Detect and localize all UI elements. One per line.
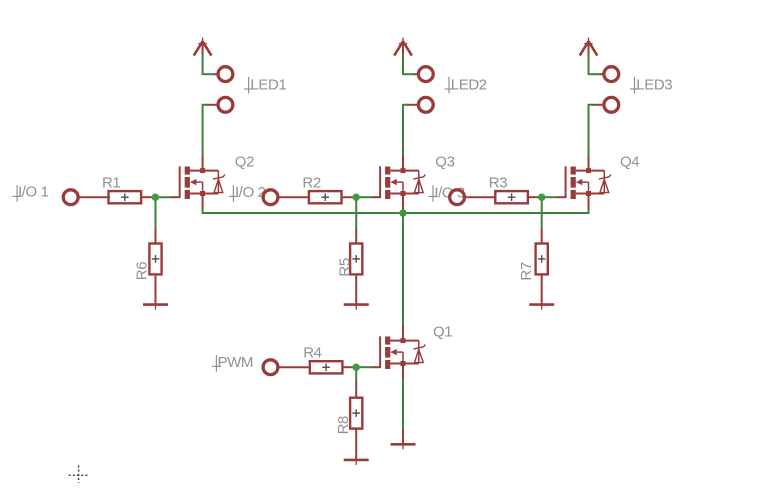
label I/O 3 origin cross xyxy=(429,185,438,202)
label PWM origin cross xyxy=(212,355,221,372)
sheet origin cross xyxy=(69,465,89,483)
label R2 xyxy=(302,174,320,191)
wire source bus xyxy=(203,209,589,213)
wire R2 to node2 xyxy=(341,196,357,198)
ground GND4 xyxy=(344,460,369,465)
label R8 xyxy=(335,416,352,434)
wire VCC P3 xyxy=(588,55,590,75)
svg-text:LED3: LED3 xyxy=(636,76,672,93)
resistor R3 xyxy=(495,191,528,203)
resistor R2 xyxy=(309,191,342,203)
connector IO1 pad xyxy=(63,190,78,205)
resistor R4 xyxy=(310,361,343,373)
wire Q2 source pin xyxy=(202,196,204,209)
label R4 xyxy=(303,345,321,362)
wire bus to Q1 drain xyxy=(402,213,404,325)
label I/O 1 xyxy=(18,184,49,201)
pin 1 stub LED1 xyxy=(214,73,218,75)
wire R7 to ground xyxy=(541,274,543,305)
power VCC arrow P1 xyxy=(194,38,212,56)
label Q2 xyxy=(235,153,254,170)
connector PWM pad xyxy=(263,360,278,375)
connector LED3 pin 1 pad xyxy=(604,67,619,82)
wire LED2 pin1 xyxy=(403,73,415,75)
wire Q3 source pin xyxy=(402,196,404,209)
wire node4 to R8 xyxy=(355,367,357,382)
wire ground pin Q1 xyxy=(402,429,404,444)
wire LED2 pin2 to drain xyxy=(403,105,408,156)
label PWM xyxy=(218,354,253,371)
label R6 xyxy=(134,262,151,280)
resistor R8 xyxy=(350,398,362,429)
label LED3 xyxy=(636,76,672,93)
svg-text:LED2: LED2 xyxy=(451,76,487,93)
connector IO3 pad xyxy=(450,190,465,205)
svg-text:R3: R3 xyxy=(489,174,507,191)
wire Q4 source pin xyxy=(588,196,590,209)
svg-text:PWM: PWM xyxy=(218,354,253,371)
wire R6 pin xyxy=(155,228,157,245)
wire R4 to node4 xyxy=(342,366,357,368)
power VCC arrow P2 xyxy=(394,38,412,56)
label Q3 xyxy=(435,153,454,170)
junction node3 xyxy=(538,194,545,201)
wire R8 to ground xyxy=(355,428,357,460)
ground GND5 xyxy=(391,444,416,449)
wire Q3 source to bus xyxy=(402,209,404,214)
label R3 xyxy=(489,174,507,191)
label R5 xyxy=(336,258,353,276)
svg-text:R2: R2 xyxy=(302,174,320,191)
transistor Q4 N-MOSFET xyxy=(557,166,611,199)
label I/O 2 origin cross xyxy=(229,185,238,202)
connector IO2 pad xyxy=(263,190,278,205)
svg-text:Q1: Q1 xyxy=(433,323,452,340)
junction node1 xyxy=(152,194,159,201)
label LED1 xyxy=(250,76,286,93)
wire LED3 pin1 xyxy=(589,73,601,75)
resistor R7 xyxy=(536,244,548,275)
svg-text:R5: R5 xyxy=(336,258,353,276)
transistor Q2 N-MOSFET xyxy=(171,166,225,199)
ground GND2 xyxy=(344,305,369,310)
power VCC arrow P3 xyxy=(580,38,598,56)
label I/O 2 xyxy=(235,184,266,201)
wire R5 pin xyxy=(355,228,357,245)
transistor Q3 N-MOSFET xyxy=(371,166,425,199)
wire node1 to Q2 gate xyxy=(155,196,171,198)
wire R7 pin xyxy=(541,228,543,245)
svg-text:Q4: Q4 xyxy=(620,154,639,171)
wire VCC P1 xyxy=(202,55,204,75)
label Q4 xyxy=(620,154,639,171)
wire node4 to Q1 gate xyxy=(356,366,372,368)
wire Q1 source to ground xyxy=(402,379,404,429)
transistor Q1 N-MOSFET xyxy=(371,336,425,369)
resistor R5 xyxy=(350,244,362,275)
wire R3 to node3 xyxy=(527,196,542,198)
wire node2 to Q3 gate xyxy=(356,196,372,198)
pin 1 stub LED2 xyxy=(414,73,418,75)
svg-text:R7: R7 xyxy=(518,262,535,280)
wire R1 to node1 xyxy=(141,196,157,198)
label LED2 xyxy=(451,76,487,93)
wire node3 to Q4 gate xyxy=(542,196,558,198)
label LED1 origin cross xyxy=(244,77,253,94)
wire node2 to R5 xyxy=(355,197,357,228)
connector LED3 pin 2 pad xyxy=(604,97,619,112)
svg-text:I/O 2: I/O 2 xyxy=(235,184,266,201)
connector LED2 pin 2 pad xyxy=(418,97,433,112)
resistor R6 xyxy=(149,244,161,275)
svg-text:Q2: Q2 xyxy=(235,153,254,170)
connector LED1 pin 1 pad xyxy=(218,67,233,82)
wire VCC P2 xyxy=(402,55,404,75)
wire LED1 pin1 xyxy=(203,73,215,75)
resistor R1 xyxy=(109,191,142,203)
connector LED2 pin 1 pad xyxy=(418,67,433,82)
junction node4 xyxy=(353,364,360,371)
label R7 xyxy=(518,262,535,280)
wire LED3 pin2 to drain xyxy=(589,105,594,156)
svg-text:R6: R6 xyxy=(134,262,151,280)
label Q1 xyxy=(433,323,452,340)
svg-text:R1: R1 xyxy=(102,174,120,191)
label I/O 1 origin cross xyxy=(13,185,22,202)
junction bus node xyxy=(399,209,406,216)
wire drain feed LED3 xyxy=(588,155,590,169)
label I/O 3 xyxy=(434,184,465,201)
wire I/O1 to R1 xyxy=(78,196,110,198)
label LED2 origin cross xyxy=(445,77,454,94)
pin 2 stub LED3 xyxy=(593,104,605,106)
svg-text:LED1: LED1 xyxy=(250,76,286,93)
wire Q1 drain pin xyxy=(402,325,404,339)
wire drain feed LED2 xyxy=(402,155,404,169)
svg-text:R4: R4 xyxy=(303,345,321,362)
svg-text:R8: R8 xyxy=(335,416,352,434)
wire node1 to R6 xyxy=(155,197,157,228)
pin 1 stub LED3 xyxy=(600,73,604,75)
wire PWM to R4 xyxy=(278,366,311,368)
wire node3 to R7 xyxy=(541,197,543,228)
pin 2 stub LED1 xyxy=(207,104,219,106)
label LED3 origin cross xyxy=(630,77,639,94)
junction node2 xyxy=(353,194,360,201)
wire LED1 pin2 to drain xyxy=(203,105,208,156)
wire I/O2 to R2 xyxy=(278,196,310,198)
wire R6 to ground xyxy=(155,274,157,305)
svg-text:I/O 1: I/O 1 xyxy=(18,184,49,201)
wire R8 pin xyxy=(355,382,357,399)
connector LED1 pin 2 pad xyxy=(218,97,233,112)
label R1 xyxy=(102,174,120,191)
wire R5 to ground xyxy=(355,274,357,305)
svg-text:Q3: Q3 xyxy=(435,153,454,170)
wire Q1 source pin xyxy=(402,366,404,379)
pin 2 stub LED2 xyxy=(407,104,419,106)
wire I/O3 to R3 xyxy=(464,196,496,198)
ground GND3 xyxy=(529,305,554,310)
wire drain feed LED1 xyxy=(202,155,204,169)
ground GND1 xyxy=(143,305,168,310)
